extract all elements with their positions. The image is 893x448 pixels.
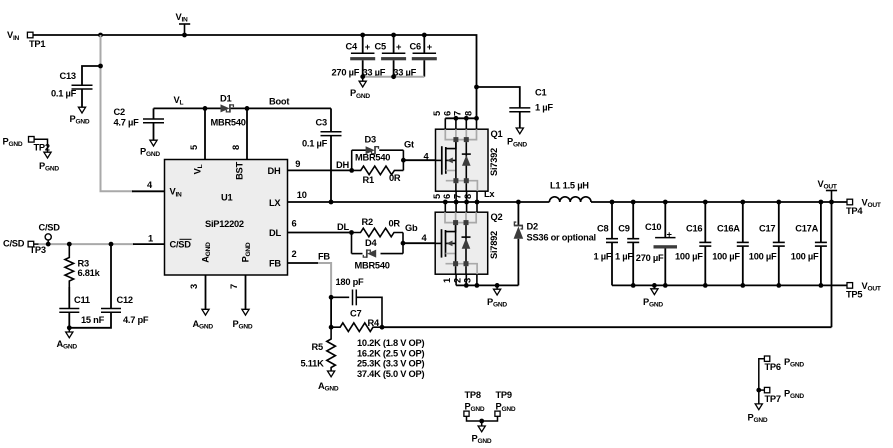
svg-text:0.1 µF: 0.1 µF xyxy=(51,89,77,99)
wire R1-D3 left bar xyxy=(351,150,353,170)
svg-text:6: 6 xyxy=(292,218,297,228)
wire TP6 to TP7 xyxy=(759,359,765,390)
svg-text:R4: R4 xyxy=(368,318,380,328)
capacitor C7 180pF xyxy=(331,296,349,298)
junction C4 xyxy=(360,33,365,38)
svg-text:25.3K (3.3 V OP): 25.3K (3.3 V OP) xyxy=(357,359,424,369)
svg-text:3: 3 xyxy=(189,284,199,289)
resistor R4 xyxy=(331,323,382,332)
wire C/SD net xyxy=(39,243,135,245)
diode D1 MBR540 xyxy=(221,104,234,112)
junction C1 tap xyxy=(474,85,479,90)
diode D4 MBR540 xyxy=(352,253,363,255)
svg-text:1 µF: 1 µF xyxy=(535,103,553,113)
test point TP6 xyxy=(764,356,769,361)
junction VIN-C13 feed xyxy=(98,33,103,38)
wire VL rail xyxy=(154,107,221,109)
svg-text:8: 8 xyxy=(231,145,241,150)
wire LX rail pin 10 xyxy=(288,201,550,203)
ground PGND input caps xyxy=(362,77,364,81)
junction R4 left xyxy=(329,325,334,330)
svg-text:10.2K (1.8 V OP): 10.2K (1.8 V OP) xyxy=(357,338,424,348)
ground PGND below C13 xyxy=(78,107,85,113)
capacitor C16 100uF xyxy=(704,202,706,242)
svg-text:C13: C13 xyxy=(60,71,76,81)
svg-text:Si7892: Si7892 xyxy=(489,231,499,259)
capacitor C16A 100uF xyxy=(742,202,744,242)
svg-text:C/SD: C/SD xyxy=(3,238,25,248)
svg-text:Gb: Gb xyxy=(405,223,418,233)
junction PGND Q2 xyxy=(495,283,500,288)
ground PGND below C1 xyxy=(516,128,523,134)
junction C3-LX xyxy=(329,200,334,205)
wire Gt to Q1 gate xyxy=(403,159,436,161)
junction C8 top xyxy=(610,200,615,205)
svg-text:1: 1 xyxy=(442,278,452,283)
svg-text:C16A: C16A xyxy=(717,223,740,233)
test point TP1 xyxy=(27,32,33,38)
svg-text:2: 2 xyxy=(292,249,297,259)
resistor R2 0R xyxy=(352,228,404,237)
svg-text:TP1: TP1 xyxy=(29,39,45,49)
svg-text:D4: D4 xyxy=(365,238,377,248)
capacitor C13 xyxy=(82,66,101,85)
junction AGND C11 C12 xyxy=(67,325,72,330)
junction DL node xyxy=(349,230,354,235)
wire output ground rail xyxy=(612,284,847,286)
ground PGND below Q2 xyxy=(496,285,498,289)
wire Q2 source rail xyxy=(456,284,518,286)
test point TP7 xyxy=(764,387,769,392)
diode D2 SS36 xyxy=(517,202,519,226)
ground PGND pin7 xyxy=(242,309,249,315)
svg-text:+: + xyxy=(365,42,371,52)
junction C10 top xyxy=(663,200,668,205)
wire FB pin 2 xyxy=(288,262,319,264)
svg-text:TP6: TP6 xyxy=(765,362,781,372)
wire Q2 bottom stubs xyxy=(455,274,457,285)
svg-text:C3: C3 xyxy=(316,118,327,128)
wire feedback long xyxy=(382,326,832,328)
svg-text:R5: R5 xyxy=(312,342,323,352)
svg-text:+: + xyxy=(667,229,673,239)
transistor Q1 Si7392 xyxy=(436,129,489,191)
capacitor C4 270uF xyxy=(362,35,364,53)
wire U1 pin 8 BST xyxy=(246,108,248,159)
wire Gb to Q2 gate xyxy=(403,242,436,244)
svg-text:Boot: Boot xyxy=(269,96,289,106)
wire input cap ground bus xyxy=(363,76,425,78)
svg-text:C6: C6 xyxy=(410,41,421,51)
junction DH node xyxy=(349,168,354,173)
junction C17 top xyxy=(776,200,781,205)
svg-text:TP2: TP2 xyxy=(34,143,50,153)
svg-text:5: 5 xyxy=(189,145,199,150)
svg-text:BST: BST xyxy=(234,162,244,180)
test point TP5 xyxy=(847,283,853,289)
svg-text:4.7 pF: 4.7 pF xyxy=(123,315,149,325)
ground PGND TP6 TP7 xyxy=(758,390,760,404)
svg-text:R2: R2 xyxy=(362,217,373,227)
capacitor C8 1uF xyxy=(611,202,613,239)
svg-text:5.11K: 5.11K xyxy=(301,359,325,369)
svg-text:DL: DL xyxy=(337,222,349,232)
capacitor C6 33uF xyxy=(423,35,425,53)
junction R3 tap xyxy=(67,242,72,247)
svg-text:C/SD: C/SD xyxy=(170,240,192,250)
junction D2-LX xyxy=(516,200,521,205)
svg-text:C/SD: C/SD xyxy=(39,222,61,232)
svg-text:U1: U1 xyxy=(221,193,232,203)
transistor Q2 Si7892 xyxy=(435,212,488,274)
wire U1 pin 7 PGND xyxy=(245,275,247,309)
svg-text:C17A: C17A xyxy=(795,223,818,233)
svg-text:C7: C7 xyxy=(350,309,361,319)
svg-text:Q2: Q2 xyxy=(491,212,503,222)
svg-text:C4: C4 xyxy=(346,41,358,51)
wire U1 pin 3 AGND xyxy=(205,275,207,309)
junction BST pin8 xyxy=(245,106,250,111)
ground AGND pin3 xyxy=(202,309,209,315)
svg-text:0R: 0R xyxy=(389,173,401,183)
svg-text:MBR540: MBR540 xyxy=(211,117,246,127)
svg-text:FB: FB xyxy=(318,251,330,261)
svg-text:180 pF: 180 pF xyxy=(336,277,365,287)
svg-text:C12: C12 xyxy=(117,295,133,305)
wire U1 pin 5 VL xyxy=(204,108,206,159)
junction FB-C7 xyxy=(329,295,334,300)
svg-text:L1 1.5 µH: L1 1.5 µH xyxy=(550,181,589,191)
svg-text:10: 10 xyxy=(297,190,307,200)
junction LX FET stubs xyxy=(443,200,448,205)
svg-text:D3: D3 xyxy=(365,134,376,144)
svg-text:TP5: TP5 xyxy=(846,290,862,300)
wire R2-D4 left bar xyxy=(351,233,353,254)
wire VIN feed to U1 pin 4 xyxy=(101,35,134,191)
wire VOUT sense vertical xyxy=(831,202,833,327)
svg-text:C10: C10 xyxy=(645,222,661,232)
svg-text:100 µF: 100 µF xyxy=(791,251,819,261)
svg-text:6: 6 xyxy=(442,194,452,199)
ground AGND below C11 xyxy=(68,328,70,332)
svg-text:DH: DH xyxy=(268,166,281,176)
svg-text:+: + xyxy=(427,42,433,52)
wire DL pin 6 xyxy=(288,232,352,234)
svg-text:6: 6 xyxy=(442,111,452,116)
junction PGND output caps xyxy=(652,283,657,288)
ground PGND below C2 xyxy=(150,140,157,146)
junction C12 tap xyxy=(109,242,114,247)
svg-text:7: 7 xyxy=(229,284,239,289)
capacitor C2 xyxy=(153,108,155,119)
svg-text:FB: FB xyxy=(269,258,281,268)
resistor R5 5.11K xyxy=(327,327,336,370)
wire Q1 bottom stubs to LX xyxy=(455,191,457,202)
svg-text:100 µF: 100 µF xyxy=(675,251,703,261)
inductor L1 1.5uH xyxy=(549,197,591,202)
svg-text:0R: 0R xyxy=(389,218,401,228)
wire FB elbow xyxy=(318,263,331,298)
capacitor C17 100uF xyxy=(778,202,780,242)
ground PGND TP8 TP9 xyxy=(481,421,483,426)
svg-text:C5: C5 xyxy=(375,41,386,51)
svg-text:100 µF: 100 µF xyxy=(712,251,740,261)
junction Gb node xyxy=(401,241,406,246)
svg-text:DL: DL xyxy=(269,228,281,238)
diode D3 MBR540 xyxy=(352,149,366,151)
wire Boot to C3 xyxy=(330,108,332,131)
power flag VIN xyxy=(184,24,186,35)
wire Q2 top stubs from LX xyxy=(444,202,446,212)
svg-text:1 µF: 1 µF xyxy=(594,251,612,261)
svg-text:MBR540: MBR540 xyxy=(355,261,390,271)
junction C9 top xyxy=(631,200,636,205)
junction rail dots xyxy=(631,283,636,288)
junction TP6-TP7 xyxy=(756,388,761,393)
svg-text:C8: C8 xyxy=(597,223,608,233)
wire VIN input rail xyxy=(33,35,477,118)
junction VL pin5 xyxy=(203,106,208,111)
svg-text:C16: C16 xyxy=(686,223,702,233)
svg-text:TP9: TP9 xyxy=(496,390,512,400)
svg-text:15 nF: 15 nF xyxy=(81,315,105,325)
svg-text:R3: R3 xyxy=(78,258,89,268)
svg-text:5: 5 xyxy=(432,111,442,116)
wire DH pin 9 xyxy=(288,169,352,171)
svg-text:Si7392: Si7392 xyxy=(489,148,499,176)
junction C17A top xyxy=(819,200,824,205)
test point TP3 xyxy=(28,241,34,247)
resistor R3 6.81k xyxy=(65,244,74,287)
wire Q1 top connector xyxy=(445,117,476,119)
wire R2-D4 right bar xyxy=(402,233,404,254)
svg-text:3: 3 xyxy=(463,278,473,283)
junction C13 tap xyxy=(98,64,103,69)
svg-text:TP4: TP4 xyxy=(846,206,863,216)
resistor R1 0R xyxy=(352,166,404,175)
capacitor C3 xyxy=(321,131,342,133)
svg-text:5: 5 xyxy=(432,194,442,199)
svg-text:4.7 µF: 4.7 µF xyxy=(114,117,140,127)
junction TP8-TP9 xyxy=(479,419,484,424)
svg-text:37.4K (5.0 V OP): 37.4K (5.0 V OP) xyxy=(357,369,424,379)
junction C5 xyxy=(391,33,396,38)
svg-text:2: 2 xyxy=(452,278,462,283)
wire LX to output xyxy=(591,201,847,203)
op-amp U1 SiP12202 body xyxy=(165,160,288,276)
capacitor C5 33uF xyxy=(393,35,395,53)
svg-text:C17: C17 xyxy=(759,223,775,233)
svg-text:1 µF: 1 µF xyxy=(615,251,633,261)
svg-text:SS36 or optional: SS36 or optional xyxy=(527,232,596,242)
svg-text:0.1 µF: 0.1 µF xyxy=(302,138,328,148)
power flag VOUT xyxy=(831,191,833,203)
svg-text:1: 1 xyxy=(148,233,153,243)
svg-text:C1: C1 xyxy=(535,87,546,97)
ground PGND output caps xyxy=(653,285,655,288)
svg-text:MBR540: MBR540 xyxy=(355,153,390,163)
junction R4 right xyxy=(380,325,385,330)
svg-text:LX: LX xyxy=(269,198,281,208)
svg-text:270 µF: 270 µF xyxy=(332,67,360,77)
svg-text:100 µF: 100 µF xyxy=(749,251,777,261)
junction C16 top xyxy=(703,200,708,205)
wire TP8 TP9 join xyxy=(467,416,498,421)
capacitor C9 1uF xyxy=(632,202,634,239)
svg-text:9: 9 xyxy=(295,159,300,169)
ground PGND below TP2 xyxy=(44,152,51,158)
svg-text:270 µF: 270 µF xyxy=(636,253,664,263)
svg-text:DH: DH xyxy=(336,160,349,170)
junction C16A top xyxy=(740,200,745,205)
capacitor C10 270uF xyxy=(664,202,666,238)
svg-text:Q1: Q1 xyxy=(491,129,503,139)
capacitor C12 xyxy=(110,244,112,308)
svg-text:6.81k: 6.81k xyxy=(78,268,101,278)
svg-text:C11: C11 xyxy=(74,295,90,305)
wire R1-D3 right bar xyxy=(402,150,404,170)
svg-text:R1: R1 xyxy=(363,175,374,185)
svg-text:8: 8 xyxy=(463,194,473,199)
svg-text:+: + xyxy=(396,42,402,52)
capacitor C11 xyxy=(68,287,70,309)
test point TP4 xyxy=(847,199,853,205)
svg-text:TP3: TP3 xyxy=(30,245,46,255)
svg-text:D1: D1 xyxy=(220,94,231,104)
svg-text:C2: C2 xyxy=(114,107,125,117)
junction C6 xyxy=(422,33,427,38)
capacitor C17A 100uF xyxy=(820,202,822,242)
svg-text:TP8: TP8 xyxy=(465,390,481,400)
svg-text:C9: C9 xyxy=(618,223,629,233)
junction VOUT xyxy=(829,200,834,205)
svg-text:D2: D2 xyxy=(527,221,538,231)
svg-text:SiP12202: SiP12202 xyxy=(205,219,244,229)
svg-text:Gt: Gt xyxy=(404,140,414,150)
svg-text:TP7: TP7 xyxy=(765,394,781,404)
ground AGND below R5 xyxy=(328,371,335,377)
svg-text:16.2K (2.5 V OP): 16.2K (2.5 V OP) xyxy=(357,348,424,358)
svg-text:7: 7 xyxy=(453,111,463,116)
svg-text:7: 7 xyxy=(453,194,463,199)
svg-text:8: 8 xyxy=(463,111,473,116)
capacitor C1 1uF xyxy=(477,87,520,108)
wire Q1 pin stubs top xyxy=(444,118,446,129)
junction Gt node xyxy=(401,158,406,163)
